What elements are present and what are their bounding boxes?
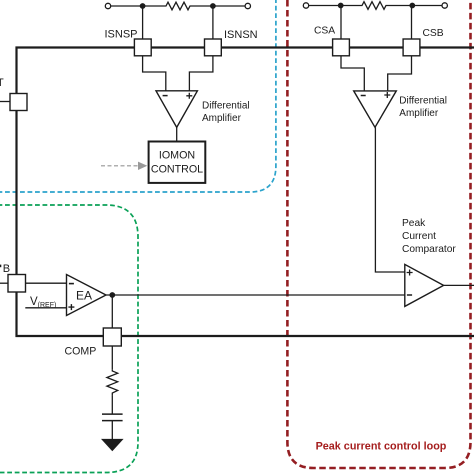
op-amp U1 (differential amplifier, left) — [156, 91, 197, 128]
EA non-inverting pin mark — [68, 304, 74, 310]
terminal (open circle, rail2 right) — [442, 3, 447, 8]
svg-text:Peak: Peak — [402, 218, 426, 229]
control loop boundary (cyan dashed, current monitor region) — [0, 0, 276, 192]
wire: junction to CSA pin — [340, 6, 342, 41]
wire: resistor to capacitor — [111, 395, 113, 414]
terminal (open circle, rail1 right) — [245, 3, 250, 8]
U1 inverting pin mark — [163, 95, 168, 97]
svg-text:Amplifier: Amplifier — [399, 108, 439, 119]
terminal (open circle, rail1 left) — [105, 3, 110, 8]
wire: stub from left edge into pin T — [0, 101, 10, 103]
wire: COMP pin down to compensation resistor — [111, 346, 113, 370]
pin CSB — [403, 39, 420, 56]
svg-text:Comparator: Comparator — [402, 244, 456, 255]
svg-text:COMP: COMP — [65, 345, 97, 357]
svg-text:ISNSN: ISNSN — [224, 29, 258, 41]
wire: CSA pin to diff amp U2 inverting input — [341, 56, 364, 91]
junction dot at EA output — [109, 292, 115, 298]
bus wire: top rail / left rail / bottom rail — [17, 48, 474, 337]
control loop boundary (green dashed, voltage loop region) — [0, 205, 138, 473]
ground symbol — [101, 439, 124, 451]
svg-text:IOMON: IOMON — [159, 150, 195, 162]
junction dot (rail1 right) — [210, 3, 216, 9]
svg-text:EA: EA — [76, 288, 92, 302]
wire: U2 output to peak comparator non-inverting input — [375, 127, 404, 272]
compensation capacitor — [102, 413, 123, 415]
svg-text:T: T — [0, 77, 4, 89]
junction dot (rail2 left) — [338, 3, 344, 9]
op-amp U2 (differential amplifier, right) — [354, 91, 397, 127]
comparator U3 (peak current comparator) — [405, 264, 444, 306]
svg-text:Differential: Differential — [202, 100, 250, 111]
svg-text:ISNSP: ISNSP — [105, 29, 138, 41]
svg-text:Amplifier: Amplifier — [202, 113, 242, 124]
svg-text:CSB: CSB — [423, 28, 444, 39]
U2 non-inverting pin mark — [384, 92, 390, 98]
block: IOMON CONTROL — [149, 142, 206, 183]
junction dot (rail2 right) — [409, 3, 415, 9]
pin COMP — [103, 328, 121, 346]
wire: stub from left edge into pin B — [0, 282, 8, 284]
wire: VREF stub to EA non-inverting input — [25, 307, 66, 309]
wire: EA output junction down to COMP pin — [111, 295, 113, 328]
svg-text:B: B — [3, 263, 10, 275]
svg-text:V(REF): V(REF) — [30, 296, 56, 309]
wire: junction to ISNSP pin — [142, 6, 144, 40]
svg-text:Differential: Differential — [399, 96, 447, 107]
wire: ISNSN pin to diff amp U1 non-inverting input — [189, 56, 213, 91]
wire: CSB pin to diff amp U2 non-inverting input — [388, 56, 412, 91]
wire: rail1 left terminal to junction — [111, 5, 143, 7]
wire: EA output to comparator inverting input — [106, 294, 405, 296]
pin ISNSP — [134, 39, 151, 56]
compensation resistor (vertical zigzag) — [107, 370, 118, 395]
pin ISNSN — [205, 39, 222, 56]
pin CSA — [333, 39, 350, 56]
wire: U1 output to IOMON CONTROL — [176, 127, 178, 141]
EA inverting pin mark — [69, 283, 74, 285]
svg-text:Current: Current — [402, 231, 436, 242]
wire: rail2 junction to right terminal — [412, 5, 442, 7]
U2 inverting pin mark — [361, 95, 366, 97]
svg-text:CONTROL: CONTROL — [151, 163, 203, 175]
gray dashed control arrow into IOMON CONTROL — [101, 165, 138, 167]
junction dot (rail1 left) — [140, 3, 146, 9]
terminal (open circle, rail2 left) — [303, 3, 308, 8]
op-amp EA (error amplifier) — [67, 275, 107, 316]
svg-text:CSA: CSA — [314, 25, 335, 36]
pin B — [8, 275, 26, 293]
wire: pin B to EA inverting input — [26, 282, 67, 284]
wire: rail1 junction to right terminal — [213, 5, 245, 7]
svg-text:Peak current control loop: Peak current control loop — [316, 441, 447, 453]
sense resistor R2 (CSA-CSB) — [341, 2, 413, 10]
wire: ISNSP pin to diff amp U1 inverting input — [143, 56, 166, 91]
control loop boundary (red dashed, peak current control loop) — [287, 0, 470, 468]
sense resistor R1 (ISNSP-ISNSN) — [143, 2, 213, 10]
wire: junction to ISNSN pin — [212, 6, 214, 40]
wire: rail2 left terminal to junction — [309, 5, 341, 7]
wire: comparator output — [444, 284, 474, 286]
U1 non-inverting pin mark — [186, 93, 192, 99]
U3 inverting pin mark — [407, 294, 412, 296]
wire: capacitor to ground — [111, 421, 113, 439]
wire: junction to CSB pin — [411, 6, 413, 41]
U3 non-inverting pin mark — [407, 270, 413, 276]
